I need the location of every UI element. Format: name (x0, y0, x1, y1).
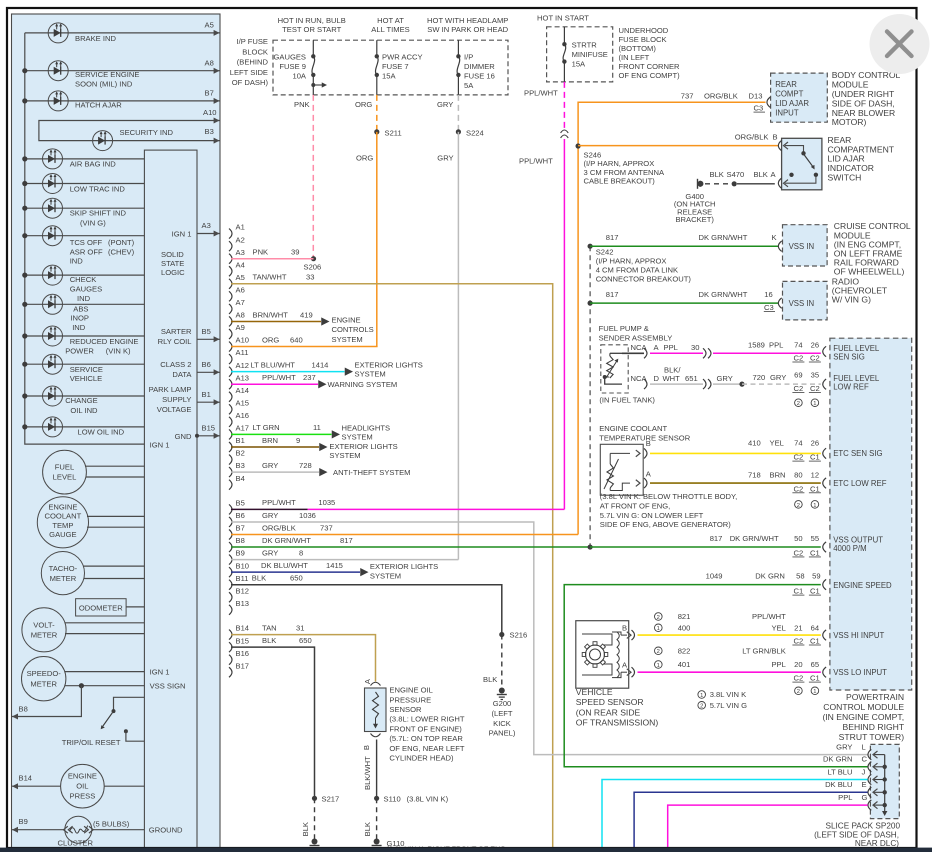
fuse PWR ACCY FUSE 7 15A (376, 40, 378, 56)
svg-text:MINIFUSE: MINIFUSE (572, 50, 608, 59)
pin B5 (229, 504, 232, 514)
svg-text:VOLTAGE: VOLTAGE (157, 405, 192, 414)
svg-text:A1: A1 (236, 223, 245, 232)
pin A9 (229, 329, 232, 339)
svg-text:S217: S217 (322, 795, 340, 804)
svg-text:BLOCK: BLOCK (242, 47, 268, 56)
svg-text:VSS HI INPUT: VSS HI INPUT (833, 631, 884, 640)
svg-text:GRY: GRY (770, 373, 786, 382)
svg-text:TAN/WHT: TAN/WHT (253, 273, 287, 282)
svg-text:B7: B7 (205, 89, 214, 98)
svg-text:PPL/WHT: PPL/WHT (262, 373, 296, 382)
ODOMETER (76, 599, 127, 616)
ground G200 (499, 688, 505, 694)
svg-text:21: 21 (794, 623, 802, 632)
svg-text:35: 35 (811, 370, 819, 379)
svg-text:B: B (622, 624, 627, 633)
svg-text:PPL/WHT: PPL/WHT (262, 498, 296, 507)
svg-text:CONNECTOR BREAKOUT): CONNECTOR BREAKOUT) (596, 275, 692, 284)
svg-text:ORG: ORG (262, 335, 279, 344)
instrument cluster panel (12, 14, 221, 848)
wire B15 BLK 650 to G110 (231, 647, 315, 796)
svg-text:BLK: BLK (710, 170, 724, 179)
pin B3 (229, 467, 232, 477)
wire speedo VSS to B8 (79, 683, 84, 688)
svg-text:B3: B3 (236, 461, 245, 470)
svg-text:B15: B15 (236, 636, 250, 645)
module CRUISE CONTROL VSS IN (783, 225, 828, 266)
svg-text:S242: S242 (596, 248, 614, 257)
svg-text:(VIN G): (VIN G) (80, 219, 106, 228)
svg-text:PPL/WHT: PPL/WHT (524, 88, 558, 97)
svg-text:GAUGES: GAUGES (70, 285, 103, 294)
svg-text:30: 30 (691, 343, 699, 352)
svg-text:3 CM FROM ANTENNA: 3 CM FROM ANTENNA (584, 168, 666, 177)
pin B2 (229, 455, 232, 465)
svg-text:A2: A2 (236, 235, 245, 244)
svg-text:ORG: ORG (355, 100, 372, 109)
svg-text:HOT AT: HOT AT (377, 16, 404, 25)
stub B15 (197, 435, 220, 437)
module POWERTRAIN CONTROL MODULE (830, 338, 912, 690)
svg-text:737: 737 (681, 91, 694, 100)
svg-text:LT GRN/BLK: LT GRN/BLK (742, 646, 786, 655)
pin A10 (229, 342, 232, 352)
svg-text:IGN 1: IGN 1 (172, 229, 192, 238)
svg-text:BLK: BLK (301, 822, 310, 836)
pin A7 (229, 304, 232, 314)
close button (870, 14, 930, 74)
indicator LOW TRAC IND (25, 183, 145, 185)
svg-text:CLUSTER: CLUSTER (58, 838, 94, 847)
svg-text:KICK: KICK (493, 719, 511, 728)
pin B4 (229, 480, 232, 490)
svg-text:E: E (862, 780, 867, 789)
svg-text:ENGINE OIL: ENGINE OIL (389, 686, 432, 695)
svg-text:A8: A8 (205, 59, 214, 68)
svg-text:SOLID: SOLID (161, 250, 184, 259)
svg-text:1: 1 (657, 626, 660, 632)
I/P fuse block (273, 40, 508, 95)
svg-text:SPEED SENSOR: SPEED SENSOR (576, 697, 644, 707)
wire B10 DK BLU/WHT 1415 (231, 571, 360, 573)
svg-text:PNK: PNK (294, 100, 310, 109)
svg-text:VOLT-: VOLT- (33, 620, 55, 629)
svg-text:BLK: BLK (363, 822, 372, 836)
svg-text:ANTI-THEFT SYSTEM: ANTI-THEFT SYSTEM (333, 468, 411, 477)
splice S216 (499, 632, 504, 637)
slice pack SP200 (870, 744, 899, 818)
svg-text:SENSOR: SENSOR (389, 705, 422, 714)
slice terminal E DK BLU (874, 791, 885, 793)
svg-text:PRESS: PRESS (70, 792, 96, 801)
svg-text:SECURITY IND: SECURITY IND (120, 128, 174, 137)
sensor VEHICLE SPEED (576, 621, 629, 689)
svg-text:TACHO-: TACHO- (49, 564, 78, 573)
svg-text:REAR: REAR (775, 80, 797, 89)
indicator SKIP SHIFT IND (25, 207, 145, 209)
svg-text:LOGIC: LOGIC (161, 268, 185, 277)
svg-text:BRAKE IND: BRAKE IND (75, 34, 116, 43)
svg-text:650: 650 (290, 574, 303, 583)
thermistor arrow (604, 459, 619, 489)
svg-text:817: 817 (606, 290, 619, 299)
indicator BRAKE IND (25, 32, 220, 34)
svg-text:FRONT OF ENGINE): FRONT OF ENGINE) (389, 724, 462, 733)
svg-text:1: 1 (813, 503, 816, 509)
svg-text:26: 26 (811, 439, 819, 448)
svg-text:S206: S206 (304, 263, 322, 272)
svg-text:737: 737 (320, 523, 333, 532)
svg-text:BLK: BLK (262, 636, 276, 645)
pin B13 (229, 605, 232, 615)
svg-text:TEMP: TEMP (52, 521, 73, 530)
svg-text:65: 65 (811, 660, 819, 669)
pin A4 (229, 266, 232, 276)
svg-text:C1: C1 (810, 587, 820, 596)
svg-text:I/P: I/P (464, 53, 473, 62)
svg-text:9: 9 (296, 436, 300, 445)
svg-text:SPEEDO-: SPEEDO- (27, 669, 62, 678)
svg-text:ENGINE: ENGINE (48, 503, 77, 512)
svg-text:B5: B5 (202, 327, 211, 336)
svg-text:B9: B9 (236, 549, 245, 558)
pin B8 (229, 542, 232, 552)
indicator LOW OIL IND (25, 426, 145, 428)
svg-text:DK GRN: DK GRN (823, 755, 853, 764)
svg-text:B7: B7 (236, 524, 245, 533)
svg-text:(BOTTOM): (BOTTOM) (619, 44, 657, 53)
gauge FUEL LEVEL (43, 450, 87, 494)
indicator CHECK (25, 274, 145, 276)
svg-text:74: 74 (794, 340, 802, 349)
svg-text:UNDERHOOD: UNDERHOOD (619, 26, 669, 35)
svg-text:B8: B8 (19, 705, 28, 714)
svg-text:4000 P/M: 4000 P/M (833, 544, 866, 553)
svg-text:POWER: POWER (65, 346, 94, 355)
svg-text:55: 55 (811, 534, 819, 543)
svg-text:INOP: INOP (70, 314, 89, 323)
wire A5 TAN/WHT 33 (231, 284, 553, 848)
wire 401 PPL VSS LO (638, 671, 821, 673)
svg-text:A15: A15 (236, 398, 250, 407)
wire 400 YEL VSS HI (638, 634, 821, 636)
svg-text:IND: IND (72, 323, 86, 332)
svg-text:GRY: GRY (836, 742, 852, 751)
svg-text:2: 2 (797, 689, 800, 695)
svg-text:IND: IND (77, 294, 91, 303)
splice to radio (588, 301, 593, 306)
svg-text:CYLINDER HEAD): CYLINDER HEAD) (389, 754, 454, 763)
svg-text:80: 80 (794, 470, 802, 479)
lamp CLUSTER (5 BULBS) (12, 829, 65, 831)
pin A1 (229, 229, 232, 239)
svg-text:C2: C2 (794, 674, 804, 683)
svg-text:718: 718 (748, 470, 761, 479)
svg-text:ENGINE: ENGINE (332, 315, 361, 324)
svg-text:(LEFT SIDE OF DASH,: (LEFT SIDE OF DASH, (814, 830, 899, 839)
svg-text:BLK/WHT: BLK/WHT (363, 756, 372, 790)
net 817 DK GRN/WHT vertical (589, 246, 591, 547)
svg-text:C2: C2 (794, 384, 804, 393)
svg-text:(5 BULBS): (5 BULBS) (93, 819, 130, 828)
wire 1049 DK GRN engine speed (564, 585, 867, 767)
svg-text:B17: B17 (236, 661, 250, 670)
svg-text:K: K (772, 233, 777, 242)
stub A3 (197, 233, 220, 235)
svg-text:1: 1 (813, 689, 816, 695)
svg-text:74: 74 (794, 439, 802, 448)
slice terminal G PPL (874, 804, 885, 806)
indicator ABS (25, 303, 145, 305)
svg-text:640: 640 (290, 335, 303, 344)
svg-text:LT GRN: LT GRN (253, 423, 280, 432)
wire B6 GRY 1036 (231, 522, 868, 755)
svg-text:GRY: GRY (262, 511, 278, 520)
svg-text:PWR ACCY: PWR ACCY (382, 53, 423, 62)
svg-text:C1: C1 (794, 587, 804, 596)
svg-text:8: 8 (299, 548, 303, 557)
svg-text:PNK: PNK (253, 248, 269, 257)
svg-text:AIR BAG IND: AIR BAG IND (70, 159, 117, 168)
wire B5 PPL/WHT 1035 (231, 508, 308, 510)
wire B3 GRY 728 (231, 471, 319, 473)
svg-text:VEHICLE: VEHICLE (576, 687, 613, 697)
svg-text:12: 12 (811, 470, 819, 479)
svg-text:16: 16 (764, 290, 772, 299)
svg-text:A3: A3 (236, 248, 245, 257)
svg-text:B8: B8 (236, 536, 245, 545)
svg-text:B11: B11 (236, 574, 249, 583)
svg-text:817: 817 (710, 534, 723, 543)
svg-text:W/ VIN G): W/ VIN G) (832, 295, 871, 305)
pin B11 (229, 580, 232, 590)
wire GRY riser fuse16 (457, 95, 459, 132)
wire A13 PPL/WHT 237 (231, 383, 318, 385)
svg-text:BLK: BLK (754, 170, 768, 179)
svg-text:1414: 1414 (312, 360, 329, 369)
wire B7 ORG/BLK 737 (231, 534, 578, 536)
svg-text:C1: C1 (810, 484, 820, 493)
svg-text:(CHEV): (CHEV) (108, 247, 135, 256)
wire A12 LT BLU/WHT 1414 (231, 371, 345, 373)
svg-text:1: 1 (657, 663, 660, 669)
svg-text:PPL: PPL (838, 793, 852, 802)
svg-text:(LEFT: (LEFT (491, 709, 512, 718)
module RADIO VSS IN (783, 281, 828, 320)
indicator SECURITY IND (A10/B3) (39, 121, 220, 141)
wire PNK riser fuse9 to S206 (312, 95, 314, 259)
svg-text:SYSTEM: SYSTEM (370, 572, 401, 581)
pin B10 (229, 567, 232, 577)
svg-text:CABLE BREAKOUT): CABLE BREAKOUT) (584, 177, 656, 186)
svg-text:VEHICLE: VEHICLE (70, 374, 103, 383)
svg-text:TCS OFF: TCS OFF (70, 238, 103, 247)
svg-text:PPL: PPL (771, 660, 785, 669)
svg-text:DK GRN/WHT: DK GRN/WHT (262, 536, 311, 545)
svg-text:237: 237 (303, 373, 316, 382)
svg-text:NCA: NCA (631, 343, 648, 352)
splice S206 (311, 256, 316, 261)
svg-text:A7: A7 (236, 298, 245, 307)
wire BLK/WHT sensor B (376, 740, 378, 797)
svg-text:15A: 15A (382, 72, 396, 81)
svg-text:SLICE PACK SP200: SLICE PACK SP200 (826, 822, 901, 831)
svg-text:1049: 1049 (706, 571, 723, 580)
svg-text:HOT IN RUN, BULB: HOT IN RUN, BULB (278, 16, 346, 25)
sender resistor (607, 356, 613, 378)
wire IGN1 bus (25, 33, 145, 444)
svg-text:(PONT): (PONT) (108, 238, 135, 247)
svg-text:S224: S224 (466, 128, 484, 137)
svg-text:LOW TRAC IND: LOW TRAC IND (70, 185, 126, 194)
splice S217 (312, 796, 317, 801)
svg-text:WHT: WHT (663, 374, 681, 383)
wire A17 LT GRN 11 (231, 433, 332, 435)
svg-text:FUEL: FUEL (55, 462, 74, 471)
svg-text:STRUT TOWER): STRUT TOWER) (839, 732, 905, 742)
svg-text:B1: B1 (236, 436, 245, 445)
svg-text:OF ENG, NEAR LEFT: OF ENG, NEAR LEFT (389, 744, 464, 753)
wire PPL/WHT riser strtr fuse (563, 82, 565, 128)
svg-text:OF TRANSMISSION): OF TRANSMISSION) (576, 717, 659, 727)
indicator SERVICE (25, 363, 145, 365)
svg-text:817: 817 (606, 233, 619, 242)
svg-text:SYSTEM: SYSTEM (329, 451, 360, 460)
svg-text:OF ENG COMPT): OF ENG COMPT) (619, 71, 681, 80)
splice S211 (374, 129, 379, 134)
svg-text:PANEL): PANEL) (489, 729, 516, 738)
svg-text:VSS IN: VSS IN (789, 299, 815, 308)
svg-text:1: 1 (813, 401, 816, 407)
wiper arrow (606, 362, 617, 379)
svg-text:B2: B2 (236, 449, 245, 458)
svg-text:SKIP SHIFT IND: SKIP SHIFT IND (70, 209, 127, 218)
svg-text:STRTR: STRTR (572, 41, 598, 50)
splice S242 (588, 244, 593, 249)
svg-text:PRESSURE: PRESSURE (389, 695, 431, 704)
slice pack bus (884, 755, 886, 812)
svg-text:J: J (862, 767, 866, 776)
pin B6 (229, 517, 232, 527)
svg-text:15A: 15A (572, 60, 586, 69)
svg-text:A5: A5 (205, 21, 214, 30)
svg-text:2: 2 (797, 503, 800, 509)
svg-text:A4: A4 (236, 260, 245, 269)
svg-text:OIL IND: OIL IND (70, 406, 98, 415)
svg-text:SERVICE ENGINE: SERVICE ENGINE (75, 70, 139, 79)
svg-text:A8: A8 (236, 311, 245, 320)
break symbol (561, 130, 569, 133)
svg-text:A11: A11 (236, 348, 249, 357)
svg-text:400: 400 (678, 623, 691, 632)
svg-text:LEFT SIDE: LEFT SIDE (230, 68, 268, 77)
svg-text:CHECK: CHECK (70, 275, 97, 284)
gauge ENGINE COOLANT TEMP GAUGE (37, 497, 88, 548)
svg-text:SYSTEM: SYSTEM (342, 433, 373, 442)
svg-text:B6: B6 (236, 511, 245, 520)
pin B14 (229, 630, 232, 640)
branch arrow under fuse9 (311, 83, 315, 87)
svg-text:S216: S216 (510, 631, 528, 640)
svg-text:ETC SEN SIG: ETC SEN SIG (833, 449, 882, 458)
svg-text:COMPT: COMPT (775, 90, 803, 99)
svg-text:C2: C2 (794, 637, 804, 646)
svg-text:(I/P HARN, APPROX: (I/P HARN, APPROX (596, 257, 667, 266)
svg-text:ETC LOW REF: ETC LOW REF (833, 479, 887, 488)
wire B1 BRN 9 (231, 446, 319, 448)
wire BLK S470 to G400 (737, 183, 775, 185)
svg-text:FUSE 7: FUSE 7 (382, 62, 409, 71)
svg-text:A10: A10 (236, 336, 250, 345)
svg-text:EXTERIOR LIGHTS: EXTERIOR LIGHTS (329, 442, 397, 451)
svg-text:LEVEL: LEVEL (53, 472, 77, 481)
svg-text:BRN: BRN (262, 436, 278, 445)
svg-text:DK GRN: DK GRN (755, 571, 785, 580)
wire B8 DK GRN/WHT 817 (231, 546, 590, 548)
svg-text:(VIN K): (VIN K) (106, 346, 131, 355)
svg-text:I/P FUSE: I/P FUSE (236, 37, 268, 46)
svg-text:IGN 1: IGN 1 (150, 440, 170, 449)
svg-text:(IN ENGINE COMPT,: (IN ENGINE COMPT, (822, 712, 904, 722)
svg-text:EXTERIOR LIGHTS: EXTERIOR LIGHTS (355, 360, 423, 369)
splice S110 (374, 796, 379, 801)
svg-text:S470: S470 (727, 170, 745, 179)
svg-text:GRY: GRY (717, 374, 733, 383)
svg-text:EXTERIOR LIGHTS: EXTERIOR LIGHTS (370, 562, 438, 571)
svg-text:PPL/WHT: PPL/WHT (519, 157, 553, 166)
svg-text:B5: B5 (236, 499, 245, 508)
svg-text:B16: B16 (236, 649, 250, 658)
svg-text:ORG/BLK: ORG/BLK (735, 133, 769, 142)
svg-text:C3: C3 (754, 104, 764, 113)
svg-text:B14: B14 (236, 624, 250, 633)
svg-text:ORG: ORG (356, 154, 373, 163)
svg-text:B: B (773, 133, 778, 142)
wire DK BLU to slice E (634, 792, 868, 852)
fuse GAUGES FUSE 9 10A (312, 40, 314, 56)
svg-text:BRN/WHT: BRN/WHT (253, 310, 289, 319)
svg-text:NCA: NCA (631, 374, 648, 383)
svg-text:IND: IND (70, 256, 84, 265)
svg-text:720: 720 (753, 373, 766, 382)
svg-text:C2: C2 (794, 354, 804, 363)
pin A6 (229, 291, 232, 301)
svg-text:D: D (654, 374, 660, 383)
svg-text:GAUGE: GAUGE (49, 530, 76, 539)
bottom bar (0, 848, 932, 852)
svg-text:ORG/BLK: ORG/BLK (262, 523, 296, 532)
svg-text:821: 821 (678, 612, 691, 621)
stub B1 (197, 401, 220, 403)
svg-text:SYSTEM: SYSTEM (355, 369, 386, 378)
svg-text:C1: C1 (810, 548, 820, 557)
svg-text:METER: METER (50, 574, 77, 583)
svg-text:2: 2 (657, 615, 660, 621)
svg-text:1589: 1589 (748, 340, 765, 349)
svg-text:SYSTEM: SYSTEM (332, 335, 363, 344)
svg-text:5.7L VIN G: 5.7L VIN G (710, 701, 747, 710)
svg-text:33: 33 (306, 273, 314, 282)
wire A10 ORG 640 (231, 346, 378, 348)
svg-text:GAUGES: GAUGES (274, 53, 307, 62)
wire A3 PNK 39 (231, 258, 314, 260)
svg-text:DK BLU: DK BLU (825, 780, 852, 789)
wire 718 BRN (650, 482, 821, 484)
svg-text:B12: B12 (236, 586, 250, 595)
svg-text:DK GRN/WHT: DK GRN/WHT (699, 233, 748, 242)
svg-text:C1: C1 (810, 674, 820, 683)
